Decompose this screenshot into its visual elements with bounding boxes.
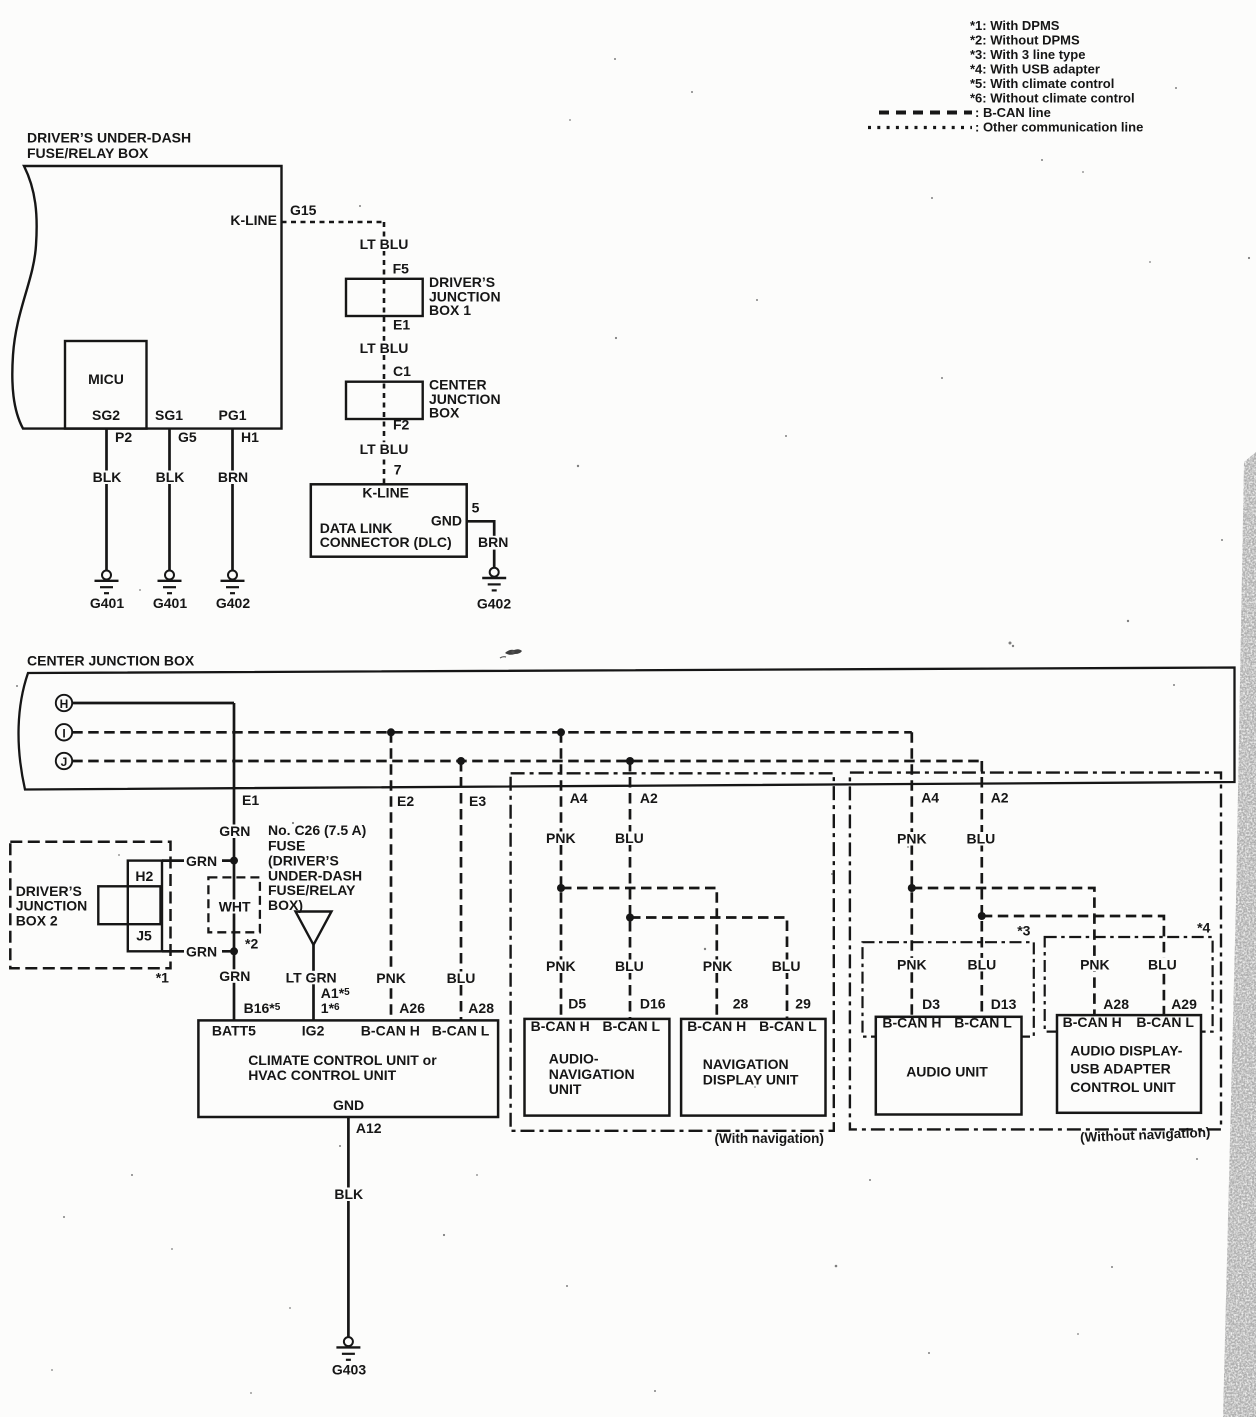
wire label PNK D5	[544, 958, 579, 974]
svg-text:A1*5: A1*5	[321, 985, 350, 1001]
svg-text:G402: G402	[477, 595, 511, 611]
pin P2	[115, 429, 132, 445]
svg-text:B-CAN H: B-CAN H	[361, 1022, 420, 1038]
junction dot nav B-CAN L	[626, 914, 634, 922]
pin PG1	[218, 407, 246, 423]
pin F2	[393, 417, 410, 433]
svg-text:PNK: PNK	[546, 958, 576, 974]
svg-text:5: 5	[472, 500, 480, 516]
driver's under-dash fuse/relay box label	[27, 130, 191, 162]
svg-text:IG2: IG2	[302, 1022, 325, 1038]
svg-text:GND: GND	[431, 513, 462, 529]
svg-text:SG1: SG1	[155, 407, 183, 423]
svg-text:A12: A12	[356, 1120, 382, 1136]
svg-text:A26: A26	[399, 1000, 425, 1016]
pin A12	[356, 1120, 382, 1136]
svg-text:*2: *2	[245, 936, 258, 952]
wire label GRN upper	[217, 823, 252, 839]
ground G402	[216, 571, 250, 612]
svg-text:A4: A4	[921, 790, 939, 806]
svg-text:I: I	[62, 726, 65, 740]
wire label PNK E2	[374, 970, 409, 986]
pin 29	[795, 995, 811, 1011]
pin A2 CJB audio	[991, 790, 1009, 806]
wire label BLU D13	[966, 956, 1000, 972]
pin G5	[178, 429, 197, 445]
svg-text:BLU: BLU	[967, 831, 996, 847]
wire branch audio B-CAN L to A29	[982, 916, 1164, 1015]
svg-text:GRN: GRN	[219, 823, 250, 839]
svg-text:*3: *3	[1017, 923, 1030, 939]
svg-text:(With navigation): (With navigation)	[715, 1131, 824, 1146]
svg-text:A2: A2	[991, 790, 1009, 806]
pin H1	[241, 429, 259, 445]
junction dot J-E3	[457, 757, 465, 765]
svg-text:NAVIGATION: NAVIGATION	[703, 1056, 789, 1072]
wire BLK to G403	[332, 1117, 366, 1337]
pin A28 audio display	[1103, 996, 1129, 1012]
svg-text:E3: E3	[469, 793, 486, 809]
pin D3	[922, 996, 940, 1012]
pin A26	[399, 1000, 425, 1016]
svg-text:No. C26 (7.5 A): No. C26 (7.5 A)	[268, 822, 366, 838]
wire K-LINE dotted horizontal	[282, 221, 383, 224]
pin A29 audio display	[1171, 996, 1197, 1012]
driver's junction box 1	[346, 274, 501, 318]
svg-text:GRN: GRN	[186, 944, 217, 960]
note legend *4	[970, 62, 1100, 77]
ground G403	[332, 1337, 366, 1378]
node H	[56, 695, 72, 711]
wire H solid to E1 column	[72, 702, 234, 705]
svg-text:MICU: MICU	[88, 371, 124, 387]
svg-text:NAVIGATION: NAVIGATION	[549, 1066, 635, 1082]
wire GRN link J5 to E1 column	[162, 944, 234, 960]
svg-text:GRN: GRN	[219, 968, 250, 984]
wire label LT BLU upper	[358, 236, 410, 252]
wire PNK E2 column dashed	[390, 732, 393, 1020]
svg-text:LT BLU: LT BLU	[360, 236, 409, 252]
wire label PNK A28	[1078, 956, 1113, 972]
junction dot GRN upper	[230, 857, 238, 865]
wire BLU A2 nav column dashed	[629, 761, 632, 1019]
svg-text:*4: With USB adapter: *4: With USB adapter	[970, 62, 1100, 77]
svg-text:AUDIO DISPLAY-: AUDIO DISPLAY-	[1070, 1043, 1183, 1059]
wire I B-CAN H dashed	[72, 731, 912, 734]
wire BLU E3 column dashed	[460, 761, 463, 1020]
pin A4 CJB audio	[921, 790, 939, 806]
wire J B-CAN L dashed	[72, 760, 982, 763]
svg-text:PNK: PNK	[376, 970, 406, 986]
wire label BLU A2 nav upper	[613, 830, 647, 846]
scan smudge	[500, 649, 522, 658]
wire segment WHT dashed box	[208, 877, 260, 932]
svg-text:FUSE/RELAY BOX: FUSE/RELAY BOX	[27, 145, 149, 161]
pin SG1	[155, 407, 183, 423]
wire GRN link H2 to E1 column	[162, 853, 234, 869]
svg-text:CONNECTOR (DLC): CONNECTOR (DLC)	[320, 534, 452, 550]
svg-text:G401: G401	[153, 595, 187, 611]
wire label LT BLU middle	[358, 340, 410, 356]
svg-text:C1: C1	[393, 363, 411, 379]
3 line type dash-dot box *3	[863, 942, 1034, 1036]
note legend *5	[970, 76, 1114, 91]
svg-text:PG1: PG1	[218, 407, 246, 423]
wire label BLU E3	[444, 970, 478, 986]
svg-text:FUSE/RELAY: FUSE/RELAY	[268, 882, 356, 898]
junction dot GRN lower	[230, 947, 238, 955]
pin A28 climate	[468, 1000, 494, 1016]
connector H2/J5 tall block	[128, 861, 162, 952]
pin 28	[733, 995, 749, 1011]
data link connector DLC	[311, 484, 467, 556]
svg-text:B-CAN H: B-CAN H	[687, 1018, 746, 1034]
pin A1*5	[321, 985, 350, 1001]
junction dot audio B-CAN H	[908, 884, 916, 892]
scan edge shading right	[1223, 452, 1256, 1417]
svg-text:LT GRN: LT GRN	[286, 970, 337, 986]
MICU block	[65, 341, 147, 429]
wire label BLU 29	[770, 958, 804, 974]
driver's under-dash fuse/relay box outline	[12, 166, 281, 429]
note fuse C26	[268, 822, 366, 913]
pin SG2	[92, 407, 120, 423]
svg-text:USB ADAPTER: USB ADAPTER	[1070, 1061, 1171, 1077]
svg-text:B-CAN H: B-CAN H	[1063, 1014, 1122, 1030]
svg-text:PNK: PNK	[703, 958, 733, 974]
wire K-LINE dotted vertical	[383, 222, 386, 484]
wire BLK SG2/P2 to ground	[89, 429, 125, 571]
wire label LT BLU lower	[358, 441, 410, 457]
wire PNK A4 audio column dashed	[910, 732, 913, 1017]
svg-text:E1: E1	[242, 792, 259, 808]
svg-text:H1: H1	[241, 429, 259, 445]
ground G401	[90, 571, 124, 612]
svg-text:LT BLU: LT BLU	[360, 340, 409, 356]
wire branch audio B-CAN H to A28	[912, 888, 1095, 1015]
connector overlap block	[98, 886, 160, 924]
svg-text:BLK: BLK	[156, 469, 185, 485]
ground G401 second	[153, 571, 187, 612]
svg-text:GRN: GRN	[186, 853, 217, 869]
junction dot audio B-CAN L	[978, 912, 986, 920]
node J	[56, 753, 72, 769]
note *2	[245, 936, 258, 952]
svg-text:CLIMATE CONTROL UNIT or: CLIMATE CONTROL UNIT or	[248, 1052, 437, 1068]
svg-text:A28: A28	[1103, 996, 1129, 1012]
svg-text:BLK: BLK	[334, 1186, 363, 1202]
svg-text:P2: P2	[115, 429, 132, 445]
node I	[56, 724, 72, 740]
wire BRN PG1/H1 to ground	[215, 429, 252, 571]
wire label PNK A4 audio upper	[895, 831, 930, 847]
navigation display unit box	[681, 1018, 825, 1115]
svg-text:*1: With DPMS: *1: With DPMS	[970, 18, 1060, 33]
svg-text:PNK: PNK	[1080, 956, 1110, 972]
wire label GRN lower	[217, 968, 252, 984]
svg-text:: B-CAN line: : B-CAN line	[975, 105, 1051, 120]
ground G402 DLC	[477, 568, 511, 612]
pin G15	[290, 202, 317, 218]
pin A2 CJB nav	[640, 790, 658, 806]
USB adapter dash-dot box *4	[1045, 937, 1213, 1032]
svg-text:G403: G403	[332, 1362, 366, 1378]
svg-text:JUNCTION: JUNCTION	[16, 898, 88, 914]
wire label BLU A29	[1146, 956, 1180, 972]
wire label BLU D16	[613, 958, 647, 974]
svg-text:DRIVER’S UNDER-DASH: DRIVER’S UNDER-DASH	[27, 130, 191, 146]
svg-text:D5: D5	[568, 995, 586, 1011]
svg-text:BLU: BLU	[447, 970, 476, 986]
svg-text:J: J	[61, 755, 68, 769]
svg-text:B16*5: B16*5	[244, 1000, 281, 1016]
svg-text:GND: GND	[333, 1097, 364, 1113]
wire label BLU A2 audio upper	[965, 831, 999, 847]
svg-text:D16: D16	[640, 995, 666, 1011]
pin E1 DJB1	[393, 316, 410, 332]
svg-text:CENTER JUNCTION BOX: CENTER JUNCTION BOX	[27, 653, 195, 669]
fuse feed triangle symbol	[296, 912, 332, 945]
wire label PNK A4 nav upper	[544, 830, 579, 846]
svg-text:BLU: BLU	[615, 958, 644, 974]
svg-text:FUSE: FUSE	[268, 837, 305, 853]
note *4	[1197, 919, 1210, 935]
svg-text:F5: F5	[393, 261, 410, 277]
pin D13	[991, 996, 1017, 1012]
svg-text:DRIVER’S: DRIVER’S	[16, 883, 82, 899]
svg-text:(DRIVER’S: (DRIVER’S	[268, 853, 339, 869]
svg-text:PNK: PNK	[546, 830, 576, 846]
wire label PNK D3	[895, 956, 930, 972]
svg-text:*4: *4	[1197, 919, 1210, 935]
wire LT GRN IG2 column	[312, 945, 315, 1021]
svg-text:B-CAN L: B-CAN L	[432, 1022, 490, 1038]
svg-text:K-LINE: K-LINE	[230, 212, 277, 228]
svg-text:PNK: PNK	[897, 831, 927, 847]
note legend *3	[970, 47, 1085, 62]
svg-text:BOX 1: BOX 1	[429, 302, 471, 318]
svg-text:BRN: BRN	[218, 469, 248, 485]
svg-text:UNIT: UNIT	[549, 1081, 582, 1097]
svg-text:PNK: PNK	[897, 956, 927, 972]
pin K-LINE	[230, 212, 277, 228]
svg-text:A29: A29	[1171, 996, 1197, 1012]
svg-text:BOX: BOX	[429, 404, 460, 420]
center junction box outline	[19, 668, 1235, 790]
svg-text:B-CAN L: B-CAN L	[759, 1018, 817, 1034]
svg-text:A4: A4	[570, 790, 588, 806]
without navigation dash-dot group box	[850, 773, 1221, 1145]
junction dot I-E2	[387, 728, 395, 736]
svg-text:H: H	[60, 697, 69, 711]
junction dot J-A2	[626, 757, 634, 765]
legend B-CAN line sample	[879, 105, 1051, 120]
wire label LT GRN	[284, 970, 344, 986]
pin F5	[393, 261, 410, 277]
pin A4 CJB nav	[570, 790, 588, 806]
svg-text:HVAC CONTROL UNIT: HVAC CONTROL UNIT	[248, 1067, 396, 1083]
pin E2 CJB	[397, 793, 414, 809]
svg-text:D13: D13	[991, 996, 1017, 1012]
driver's junction box 2 dashed outline	[10, 842, 170, 969]
pin E1 CJB	[242, 792, 259, 808]
audio-navigation unit box	[525, 1018, 670, 1115]
note legend *1	[970, 18, 1060, 33]
svg-text:(Without navigation): (Without navigation)	[1080, 1125, 1211, 1145]
svg-text:G401: G401	[90, 595, 124, 611]
wire PNK A4 nav column dashed	[560, 732, 563, 1019]
note *3	[1017, 923, 1030, 939]
svg-text:BLK: BLK	[93, 469, 122, 485]
svg-text:CONTROL UNIT: CONTROL UNIT	[1070, 1079, 1176, 1095]
pin 1*6	[321, 1000, 340, 1016]
svg-text:AUDIO UNIT: AUDIO UNIT	[906, 1063, 988, 1079]
svg-text:AUDIO-: AUDIO-	[549, 1051, 599, 1067]
wire branch nav B-CAN H to 28	[561, 888, 717, 1019]
svg-text:BLU: BLU	[968, 956, 997, 972]
junction dot nav B-CAN H	[557, 884, 565, 892]
wire GRN E1 column	[233, 703, 236, 1020]
pin E3 CJB	[469, 793, 486, 809]
svg-text:BOX 2: BOX 2	[16, 913, 58, 929]
svg-text:7: 7	[394, 461, 402, 477]
svg-text:DISPLAY UNIT: DISPLAY UNIT	[703, 1071, 799, 1087]
svg-text:BATT5: BATT5	[212, 1022, 256, 1038]
wire BRN from DLC GND	[467, 521, 513, 567]
note legend *2	[970, 33, 1080, 48]
svg-text:B-CAN L: B-CAN L	[954, 1015, 1012, 1031]
svg-text:LT BLU: LT BLU	[360, 441, 409, 457]
svg-text:J5: J5	[136, 927, 152, 943]
svg-text:H2: H2	[135, 868, 153, 884]
svg-text:28: 28	[733, 995, 749, 1011]
audio unit box	[876, 1015, 1022, 1115]
svg-text:B-CAN L: B-CAN L	[1136, 1014, 1194, 1030]
pin 7	[394, 461, 402, 477]
svg-text:B-CAN H: B-CAN H	[882, 1015, 941, 1031]
svg-text:*2: Without DPMS: *2: Without DPMS	[970, 33, 1080, 48]
legend other communication line sample	[868, 120, 1143, 135]
pin 5	[472, 500, 480, 516]
svg-text:A28: A28	[468, 1000, 494, 1016]
svg-text:G15: G15	[290, 202, 317, 218]
svg-text:WHT: WHT	[219, 899, 251, 915]
svg-text:D3: D3	[922, 996, 940, 1012]
svg-text:*5: With climate control: *5: With climate control	[970, 76, 1114, 91]
svg-text:: Other communication line: : Other communication line	[975, 120, 1143, 135]
audio display usb adapter control unit box	[1057, 1014, 1201, 1113]
svg-text:E2: E2	[397, 793, 414, 809]
svg-text:*3: With 3 line type: *3: With 3 line type	[970, 47, 1085, 62]
svg-text:BLU: BLU	[1148, 956, 1177, 972]
svg-text:B-CAN L: B-CAN L	[603, 1018, 661, 1034]
climate control unit box	[198, 1020, 498, 1117]
note legend *6	[970, 91, 1135, 106]
junction dot I-A4	[557, 728, 565, 736]
svg-text:BLU: BLU	[772, 958, 801, 974]
svg-text:G402: G402	[216, 595, 250, 611]
wire branch nav B-CAN L to 29	[630, 918, 787, 1019]
svg-text:G5: G5	[178, 429, 197, 445]
wire BLU A2 audio column dashed	[980, 761, 983, 1017]
svg-text:UNDER-DASH: UNDER-DASH	[268, 867, 362, 883]
svg-text:*6: Without climate control: *6: Without climate control	[970, 91, 1135, 106]
svg-text:29: 29	[795, 995, 811, 1011]
with navigation dash-dot group box	[511, 773, 834, 1146]
svg-text:E1: E1	[393, 316, 410, 332]
pin B16*5	[244, 1000, 281, 1016]
svg-text:B-CAN H: B-CAN H	[531, 1018, 590, 1034]
svg-text:BLU: BLU	[615, 830, 644, 846]
svg-text:BRN: BRN	[478, 534, 508, 550]
svg-text:A2: A2	[640, 790, 658, 806]
pin C1	[393, 363, 411, 379]
note *1	[156, 969, 169, 985]
center junction box label	[27, 653, 195, 669]
svg-text:K-LINE: K-LINE	[362, 485, 409, 501]
svg-text:*1: *1	[156, 969, 169, 985]
center junction box small	[346, 377, 501, 421]
svg-text:1*6: 1*6	[321, 1000, 340, 1016]
wire BLK SG1/G5 to ground	[152, 429, 188, 571]
wire label PNK 28	[701, 958, 736, 974]
svg-text:SG2: SG2	[92, 407, 120, 423]
svg-text:F2: F2	[393, 417, 410, 433]
pin D5	[568, 995, 586, 1011]
pin D16	[640, 995, 666, 1011]
